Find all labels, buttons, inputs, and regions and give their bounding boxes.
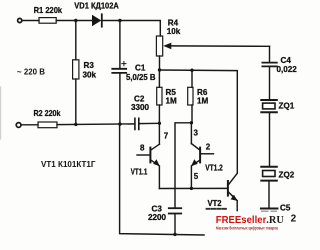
resistor R6 bbox=[188, 87, 193, 105]
crystal ZQ1 bbox=[261, 100, 277, 112]
R4 wiper arrow bbox=[163, 43, 269, 50]
node junction pin3 bbox=[190, 121, 193, 124]
wire C1 bottom lead bbox=[119, 74, 121, 125]
wire C1 top lead bbox=[119, 21, 121, 69]
svg-text:8: 8 bbox=[140, 144, 145, 153]
svg-text:VT1.2: VT1.2 bbox=[205, 164, 223, 173]
svg-text:10k: 10k bbox=[167, 27, 181, 36]
svg-text:C1: C1 bbox=[135, 63, 146, 72]
node junction C1 bottom cross bbox=[118, 122, 121, 125]
wire R6 bottom bbox=[191, 105, 193, 123]
svg-text:1M: 1M bbox=[197, 97, 209, 106]
svg-text:VT1 К101КТ1Г: VT1 К101КТ1Г bbox=[41, 160, 96, 169]
svg-text:R2 220k: R2 220k bbox=[34, 109, 61, 118]
svg-text:3300: 3300 bbox=[131, 103, 150, 112]
wire R1 to diode bbox=[56, 20, 92, 22]
capacitor C1 bbox=[112, 62, 126, 73]
svg-text:30k: 30k bbox=[83, 71, 97, 80]
capacitor C4 bbox=[262, 63, 276, 67]
terminal X2 (bottom input) bbox=[16, 123, 21, 128]
svg-text:R3: R3 bbox=[84, 61, 95, 70]
resistor R1 bbox=[39, 18, 56, 24]
svg-text:1M: 1M bbox=[166, 97, 178, 106]
svg-text:VT2: VT2 bbox=[208, 199, 222, 208]
wire X2 to R2 bbox=[22, 124, 39, 126]
wire ZQ2 to C5 bbox=[268, 181, 270, 208]
wire wiper corner down to C4 bbox=[269, 46, 271, 62]
svg-text:ZQ1: ZQ1 bbox=[279, 102, 295, 111]
label R3 30k bbox=[83, 61, 97, 80]
capacitor C2 bbox=[135, 118, 139, 129]
svg-text:C5: C5 bbox=[280, 204, 291, 213]
label R6 1M bbox=[197, 88, 209, 106]
svg-text:FREEseller: FREEseller bbox=[216, 215, 267, 226]
svg-text:3: 3 bbox=[194, 129, 199, 138]
svg-text:ZQ2: ZQ2 bbox=[279, 171, 295, 180]
capacitor C5 bbox=[261, 209, 278, 212]
wire diode to R4 corner bbox=[103, 21, 160, 37]
label C1 5,0/25 В bbox=[126, 63, 156, 82]
node junction R3 top bbox=[74, 19, 77, 22]
node junction C1 top bbox=[118, 19, 121, 22]
VT2 dashed underline bbox=[207, 208, 227, 210]
svg-text:Магазин бесплатных цифровых то: Магазин бесплатных цифровых товаров bbox=[216, 225, 278, 230]
svg-text:7: 7 bbox=[164, 132, 169, 141]
ground rail bbox=[120, 124, 204, 235]
transistor VT1.2 (mirrored) bbox=[191, 123, 214, 189]
svg-text:C4: C4 bbox=[281, 56, 292, 65]
label C2 3300 bbox=[131, 95, 150, 112]
node junction emitters bbox=[190, 187, 193, 190]
svg-text:.RU: .RU bbox=[266, 215, 284, 226]
resistor R4 bbox=[156, 36, 162, 56]
wire node3 to C3 (L shape) bbox=[175, 123, 191, 208]
svg-text:0,022: 0,022 bbox=[277, 65, 298, 74]
wire R5 bottom bbox=[158, 105, 160, 123]
wire C4 to ZQ1 bbox=[269, 67, 271, 100]
wire R2 to C2 bbox=[57, 123, 135, 126]
resistor R5 leads bbox=[158, 70, 160, 87]
wire X1 to R1 bbox=[22, 20, 39, 22]
label C3 2200 bbox=[148, 205, 167, 223]
resistor R3 bbox=[73, 60, 79, 79]
svg-text:~ 220 В: ~ 220 В bbox=[17, 68, 45, 77]
transistor VT2 bbox=[228, 173, 238, 210]
crystal ZQ2 bbox=[261, 167, 277, 181]
node junction R6 top bbox=[190, 69, 193, 72]
resistor R3 top lead bbox=[75, 21, 77, 60]
node junction R3 bottom bbox=[74, 123, 77, 126]
diode VD1 bbox=[92, 14, 102, 26]
transistor VT1.1 bbox=[137, 123, 160, 188]
wire ZQ1 to ZQ2 bbox=[269, 113, 271, 166]
watermark FREEseller.RU bbox=[216, 215, 285, 231]
scan artifact left edge bbox=[0, 87, 2, 139]
label C4 0,022 bbox=[277, 56, 298, 74]
node junction pin7 bbox=[158, 122, 161, 125]
svg-text:5,0/25 В: 5,0/25 В bbox=[126, 73, 156, 82]
resistor R5 bbox=[157, 87, 162, 105]
label R5 1M bbox=[166, 88, 178, 106]
svg-text:R1 220k: R1 220k bbox=[34, 6, 63, 15]
svg-text:VD1 КД102А: VD1 КД102А bbox=[74, 2, 119, 11]
supply rail bbox=[160, 70, 238, 173]
svg-text:2: 2 bbox=[206, 143, 211, 152]
node junction C3 ground bbox=[173, 233, 176, 236]
terminal X1 (top input) bbox=[18, 18, 22, 22]
resistor R3 bottom lead bbox=[75, 79, 77, 124]
node junction R4/R5 bbox=[158, 68, 161, 71]
svg-text:VT1.1: VT1.1 bbox=[131, 167, 148, 176]
wire C2 to node 7 bbox=[139, 122, 160, 124]
wire R4 bottom bbox=[159, 56, 161, 70]
emitter bus wire bbox=[159, 187, 227, 189]
svg-text:2: 2 bbox=[291, 213, 297, 224]
label R4 10k bbox=[167, 19, 181, 36]
svg-text:2200: 2200 bbox=[148, 213, 167, 222]
svg-text:5: 5 bbox=[194, 172, 199, 181]
resistor R2 bbox=[38, 122, 57, 128]
capacitor C3 bbox=[169, 208, 181, 234]
resistor R6 top lead bbox=[191, 70, 193, 87]
